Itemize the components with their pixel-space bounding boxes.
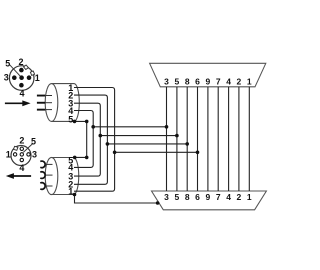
bus wire X1.8 to X2.8 <box>186 87 188 191</box>
svg-text:2: 2 <box>237 192 242 202</box>
X2 pin labels 3 5 8 6 9 7 4 2 1 <box>164 192 252 202</box>
J2 pin 4 (bottom ring) <box>20 158 23 161</box>
svg-text:9: 9 <box>206 77 211 87</box>
svg-text:3: 3 <box>164 192 169 202</box>
bus wire X1.7 to X2.7 <box>217 87 219 191</box>
junction tap3 left <box>106 142 110 146</box>
arrow out of J2 (points left) <box>12 175 31 177</box>
J1 pin 3 (left dot) <box>12 75 17 80</box>
J2 pin 2 (top ring) <box>20 147 23 150</box>
J1 pin 1 (right dot) <box>27 75 32 80</box>
junction tap4 left <box>113 151 117 155</box>
wire P1.3 to P2.3 <box>74 103 100 176</box>
P2 socket contact b <box>40 172 52 179</box>
wire P1.4 to P2.4 <box>74 111 93 168</box>
bus wire X1.9 to X2.9 <box>207 87 209 191</box>
svg-text:2: 2 <box>18 57 23 67</box>
J2 pin 5 (center ring) <box>20 153 23 156</box>
svg-text:3: 3 <box>4 73 9 83</box>
junction P2 shield at housing <box>73 156 77 160</box>
svg-text:5: 5 <box>5 58 10 68</box>
P2 connector body (bottom cylinder) <box>45 157 79 194</box>
svg-text:4: 4 <box>19 163 24 173</box>
svg-text:1: 1 <box>6 150 11 160</box>
J1 keyway notch B <box>30 71 34 75</box>
svg-text:5: 5 <box>175 192 180 202</box>
X1 pin labels 3 5 8 6 9 7 4 2 1 <box>164 77 252 87</box>
svg-text:1: 1 <box>247 192 252 202</box>
junction P2 shield bottom <box>73 193 77 197</box>
svg-text:8: 8 <box>185 77 190 87</box>
bus wire X1.5 to X2.5 <box>176 87 178 191</box>
svg-text:4: 4 <box>226 192 231 202</box>
junction tap4 right on bus 6 <box>196 151 200 155</box>
svg-text:1: 1 <box>35 73 40 83</box>
svg-text:8: 8 <box>185 192 190 202</box>
J2 pin 3 (right ring) <box>27 153 30 156</box>
tap wire pin2 net to X bus pin 8 <box>107 143 187 145</box>
J2 pin 1 (left ring) <box>13 153 16 156</box>
connector J1 M12 face view (male, 5-pin) <box>9 66 34 91</box>
wire P1.1 to P2.1 <box>74 88 115 192</box>
bus wire X1.2 to X2.2 <box>238 87 240 191</box>
svg-text:5: 5 <box>31 136 36 146</box>
svg-text:4: 4 <box>226 77 231 87</box>
J1 keyway notch A <box>24 65 29 70</box>
P1 connector body (top cylinder) <box>45 84 79 122</box>
svg-text:1: 1 <box>68 186 73 196</box>
junction tap2 left <box>99 134 103 138</box>
bus wire X1.6 to X2.6 <box>197 87 199 191</box>
junction tap3 right on bus 8 <box>185 142 189 146</box>
svg-text:9: 9 <box>206 192 211 202</box>
svg-text:6: 6 <box>195 192 200 202</box>
J1 pin 5 (center dot) <box>19 75 24 80</box>
svg-text:5: 5 <box>68 114 73 124</box>
P1 contact bar c <box>37 109 52 111</box>
bus wire X1.4 to X2.4 <box>228 87 230 191</box>
connector X2 D-SUB 9 (bottom trapezoid) <box>152 191 267 210</box>
tap wire pin4 net to X bus pin 3 <box>93 126 166 128</box>
J2 pin 5 leader line <box>23 144 32 153</box>
svg-text:7: 7 <box>216 77 221 87</box>
svg-text:2: 2 <box>237 77 242 87</box>
junction shield at X2 shell <box>156 201 160 205</box>
svg-text:3: 3 <box>32 150 37 160</box>
junction tap2 right on bus 5 <box>175 134 179 138</box>
svg-text:2: 2 <box>19 136 24 146</box>
P1 contact bar b <box>37 102 52 104</box>
J2 keyway notch <box>14 146 18 150</box>
svg-text:5: 5 <box>175 77 180 87</box>
J1 pin 5 leader line <box>10 65 22 77</box>
connector J2 M12 face view (female, 5-pin) <box>11 146 31 166</box>
junction tap1 right on bus 3 <box>165 125 169 129</box>
tap wire pin1 net to X bus pin 6 <box>115 151 198 153</box>
arrow into J1 (points right) <box>5 102 24 104</box>
junction P1 shield at housing <box>73 120 77 124</box>
bus wire X1.3 to X2.3 <box>166 87 168 191</box>
junction shield corner top <box>85 120 89 124</box>
wire P1.2 to P2.2 <box>74 95 107 184</box>
svg-text:3: 3 <box>164 77 169 87</box>
junction tap1 left <box>91 125 95 129</box>
svg-text:7: 7 <box>216 192 221 202</box>
shield wire P2 housing to X2 shell <box>75 195 160 204</box>
P1 contact bar a <box>37 95 52 97</box>
J1 pin 4 (bottom dot) <box>19 83 24 88</box>
bus wire X1.1 to X2.1 <box>248 87 250 191</box>
P2 socket contact c <box>40 183 52 190</box>
J1 pin 2 (top dot) <box>19 68 24 73</box>
svg-text:4: 4 <box>19 88 24 98</box>
junction shield corner bottom <box>85 156 89 160</box>
svg-text:6: 6 <box>195 77 200 87</box>
connector X1 D-SUB 9 (top trapezoid) <box>150 63 266 87</box>
tap wire pin3 net to X bus pin 5 <box>100 135 177 137</box>
svg-text:1: 1 <box>247 77 252 87</box>
shield wire P1 housing to P2 housing <box>75 121 87 157</box>
P2 socket contact a <box>40 161 52 168</box>
